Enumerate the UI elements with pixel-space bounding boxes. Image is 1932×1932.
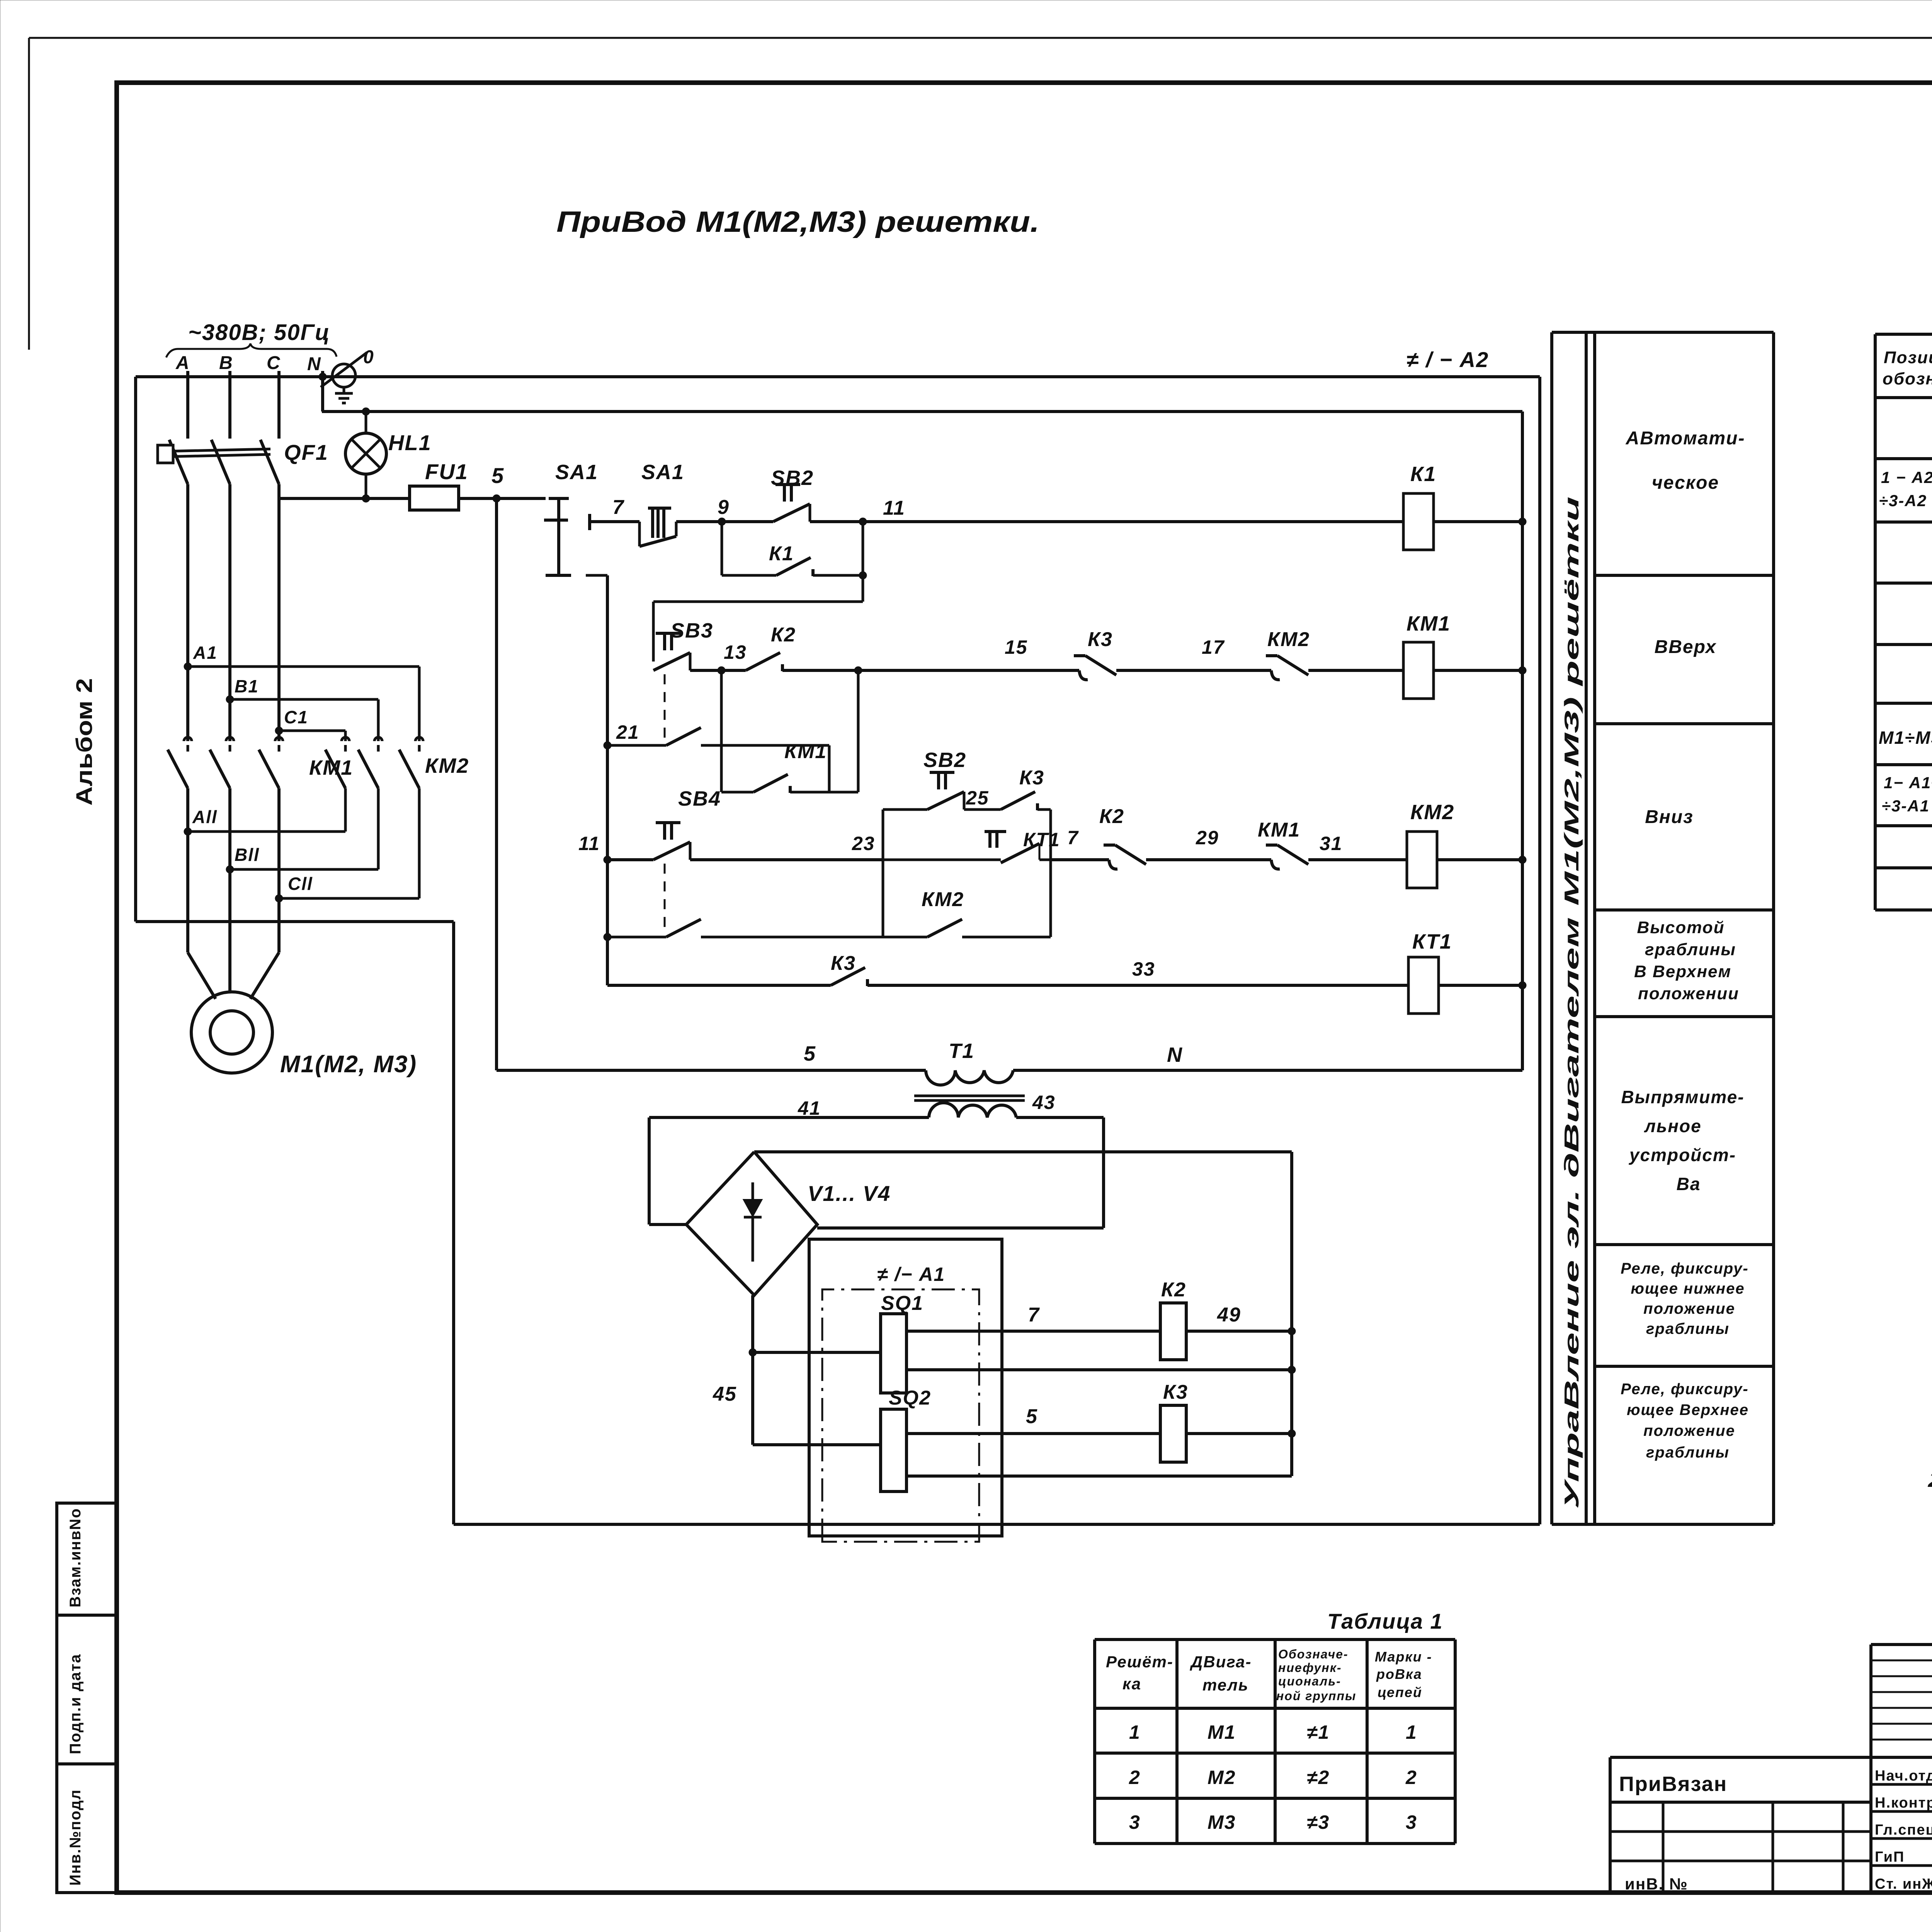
wire: circuit 49 to rail: [1186, 1304, 1296, 1335]
wire: row KM2 node 29: [1146, 827, 1271, 860]
svg-text:43: 43: [1032, 1092, 1056, 1113]
svg-text:Обозначе-: Обозначе-: [1278, 1647, 1349, 1661]
wire: to KM1 coil: [1308, 669, 1403, 672]
contactor KM2 main contacts: [325, 667, 469, 898]
svg-text:Гл.спец: Гл.спец: [1875, 1822, 1932, 1838]
note 2: [1927, 1467, 1932, 1528]
svg-text:Вниз: Вниз: [1645, 807, 1693, 827]
svg-text:ющее Верхнее: ющее Верхнее: [1627, 1401, 1749, 1418]
wire: KM1 coil to rail: [1434, 667, 1526, 674]
svg-text:КМ2: КМ2: [425, 754, 469, 777]
circuit breaker QF1: [158, 433, 328, 498]
svg-text:А: А: [175, 353, 190, 373]
svg-text:Ва: Ва: [1677, 1174, 1701, 1194]
svg-text:5: 5: [804, 1042, 816, 1065]
svg-text:7: 7: [1028, 1304, 1040, 1326]
contact K2 (NO) row 2: [746, 624, 796, 671]
svg-text:1: 1: [1406, 1721, 1417, 1743]
cell Реле нижнее: [1621, 1260, 1748, 1337]
supply label ~380V 50Hz with brace: [166, 320, 337, 357]
svg-text:41: 41: [798, 1097, 821, 1119]
table 1 grid: [1095, 1639, 1455, 1844]
contact K3 (NC) row 2: [1074, 628, 1116, 680]
contact KM2 (NO) holding branch: [922, 888, 964, 937]
box around limit switches: [809, 1239, 1002, 1536]
wire: phase stub B: [228, 371, 231, 433]
svg-text:КМ1: КМ1: [1258, 819, 1300, 841]
svg-text:SВ4: SВ4: [678, 787, 721, 810]
svg-text:Таблица 1: Таблица 1: [1327, 1609, 1443, 1633]
svg-text:К3: К3: [1088, 628, 1113, 651]
svg-text:КМ1: КМ1: [1406, 612, 1451, 635]
left margin stamp boxes: [57, 1503, 117, 1893]
wire: KT1 coil to rail: [1439, 981, 1526, 989]
wire: bus 5 - T1 - N: [497, 1039, 1522, 1070]
wire: control feed: [279, 497, 546, 500]
wire: feed for row 2 from node 11: [653, 575, 863, 662]
svg-text:15: 15: [1005, 636, 1028, 658]
svg-text:С1: С1: [284, 707, 308, 727]
svg-text:FU1: FU1: [425, 459, 468, 484]
svg-text:Высотой: Высотой: [1637, 918, 1725, 937]
svg-text:Сll: Сll: [288, 874, 313, 894]
rectifier bridge V1...V4: [686, 1152, 891, 1295]
svg-text:11: 11: [883, 497, 905, 519]
svg-text:К2: К2: [1161, 1279, 1186, 1301]
svg-text:положение: положение: [1643, 1422, 1735, 1439]
wire: row KM1 node 13: [690, 641, 747, 674]
svg-text:N: N: [307, 354, 321, 374]
svg-text:ка: ка: [1122, 1675, 1141, 1693]
drawing title: [556, 206, 1039, 238]
stamp: signature rows: [1871, 1767, 1932, 1892]
svg-text:SА1: SА1: [641, 461, 684, 484]
svg-text:М1÷М3: М1÷М3: [1879, 728, 1932, 748]
function column dividers: [1595, 575, 1774, 1366]
svg-text:Т1: Т1: [949, 1039, 975, 1063]
wire: phase stub C: [277, 371, 281, 433]
relay coil K3 (dc): [1160, 1381, 1188, 1462]
svg-text:3: 3: [1406, 1811, 1417, 1833]
svg-text:2: 2: [1129, 1767, 1141, 1788]
rotated label Инв.№подл: [67, 1789, 84, 1886]
svg-text:М2: М2: [1207, 1767, 1236, 1788]
svg-text:SВ2: SВ2: [923, 748, 966, 772]
svg-text:цепей: цепей: [1378, 1684, 1422, 1700]
rotated label Подп.и дата: [67, 1654, 84, 1755]
wire: secondary 43 to bridge: [817, 1117, 1104, 1228]
svg-text:ческое: ческое: [1652, 473, 1719, 493]
phase taps A1 B1 C1: [184, 643, 419, 735]
wire: row K1 left: [590, 496, 639, 530]
rotated column title: [1561, 497, 1583, 1509]
lamp HL1: [345, 408, 432, 502]
svg-text:33: 33: [1132, 958, 1155, 980]
svg-text:льное: льное: [1644, 1116, 1701, 1136]
svg-text:ДВига-: ДВига-: [1190, 1653, 1252, 1671]
parallel branch frame: [883, 810, 1051, 937]
contact KT1 (timer) middle: [883, 829, 1060, 863]
wire: node 31 to KM2 coil: [1308, 833, 1407, 860]
svg-text:роВка: роВка: [1376, 1666, 1422, 1682]
svg-text:КТ1: КТ1: [1412, 930, 1452, 953]
phase labels A B C N 0: [175, 347, 374, 374]
row Конечные выключатели: [1882, 774, 1932, 815]
limit switch SQ2: [881, 1387, 931, 1492]
svg-text:45: 45: [713, 1383, 737, 1405]
relay coil K2 (dc): [1160, 1279, 1186, 1360]
svg-text:граблины: граблины: [1646, 1444, 1730, 1461]
svg-text:≠3: ≠3: [1307, 1811, 1330, 1833]
pushbutton SB4: [653, 787, 721, 933]
wire: circuit 5 SQ2 to K3: [906, 1405, 1160, 1434]
svg-text:7: 7: [612, 496, 624, 519]
svg-text:Решёт-: Решёт-: [1106, 1653, 1173, 1671]
limit switch SQ1: [881, 1292, 923, 1393]
K1 holding contact branch: [722, 522, 867, 579]
node 5: [492, 463, 504, 502]
svg-text:11: 11: [578, 833, 600, 854]
enclosing box of schematic: [136, 377, 1540, 1524]
cell Выпрямительное устройство: [1621, 1087, 1744, 1194]
svg-text:ПриВод М1(М2,М3) решетки.: ПриВод М1(М2,М3) решетки.: [556, 206, 1039, 238]
svg-text:1− А1÷: 1− А1÷: [1884, 774, 1932, 792]
wire: secondary 41 to bridge: [649, 1117, 929, 1225]
wire: N stub: [319, 371, 327, 412]
wire: N bus (top): [136, 375, 1540, 378]
fuse FU1: [410, 459, 468, 510]
wire: right DC rail: [1290, 1152, 1293, 1476]
svg-text:К2: К2: [1099, 805, 1124, 828]
table 1 header: [1106, 1647, 1432, 1703]
switch SA1 section 1: [544, 461, 598, 575]
function column frame: [1552, 332, 1774, 1524]
svg-text:Нач.отд: Нач.отд: [1875, 1768, 1932, 1784]
cell Автоматическое: [1626, 428, 1745, 493]
earthing switch at N: [321, 352, 367, 403]
svg-text:Альбом 2: Альбом 2: [72, 678, 97, 806]
svg-text:31: 31: [1320, 833, 1343, 854]
svg-text:13: 13: [724, 641, 747, 663]
svg-text:V1... V4: V1... V4: [808, 1181, 891, 1206]
svg-text:~380В; 50Гц: ~380В; 50Гц: [188, 320, 330, 345]
wire: bridge bottom / 45 rail: [713, 1295, 757, 1445]
svg-text:циональ-: циональ-: [1278, 1674, 1341, 1688]
svg-text:SВ3: SВ3: [670, 619, 713, 642]
svg-text:≠ / − А2: ≠ / − А2: [1406, 347, 1489, 372]
pushbutton SB3: [653, 619, 713, 741]
svg-text:Реле, фиксиру-: Реле, фиксиру-: [1621, 1260, 1748, 1277]
table 1 title: [1327, 1609, 1443, 1633]
parts table header: [1883, 348, 1932, 388]
wire: SQ2 feed: [753, 1443, 881, 1446]
svg-text:QF1: QF1: [284, 440, 328, 464]
pushbutton SB2: [771, 466, 814, 522]
svg-text:29: 29: [1196, 827, 1219, 849]
svg-text:ниефунк-: ниефунк-: [1278, 1661, 1342, 1675]
svg-text:ющее нижнее: ющее нижнее: [1631, 1280, 1745, 1297]
svg-text:инВ. №: инВ. №: [1625, 1875, 1688, 1893]
rotated label Альбом 2: [72, 678, 97, 806]
wire: SQ2 lower to rail: [906, 1475, 1292, 1478]
svg-text:Выпрямите-: Выпрямите-: [1621, 1087, 1744, 1107]
svg-text:Взам.инвNo: Взам.инвNo: [67, 1508, 84, 1607]
wire: right rail (bus2 down to N): [1521, 412, 1524, 1070]
svg-text:КМ2: КМ2: [922, 888, 964, 911]
svg-text:Н.контр: Н.контр: [1875, 1795, 1932, 1811]
rotated label Взам.инв№: [67, 1508, 84, 1607]
svg-text:ГиП: ГиП: [1875, 1849, 1905, 1865]
svg-text:0: 0: [363, 347, 374, 367]
svg-text:КМ2: КМ2: [1267, 628, 1310, 651]
svg-text:К3: К3: [1019, 767, 1044, 789]
svg-text:ной группы: ной группы: [1276, 1689, 1356, 1703]
svg-text:2. Схема Выполнена согласно: 2. Схема Выполнена согласно заВодского: [1927, 1467, 1932, 1492]
svg-text:КМ2: КМ2: [1410, 801, 1454, 824]
svg-text:3: 3: [1129, 1811, 1141, 1833]
svg-text:УпраВление эл. дВигателем М: УпраВление эл. дВигателем М1(М2,М3) решё…: [1561, 497, 1583, 1509]
svg-text:5: 5: [492, 463, 504, 488]
dash-dot box 1-A1: [822, 1264, 979, 1542]
svg-text:≠1: ≠1: [1307, 1721, 1330, 1743]
wire: K3 to rail: [1186, 1430, 1296, 1437]
svg-text:1 − А2÷: 1 − А2÷: [1881, 468, 1932, 486]
svg-text:ПриВязан: ПриВязан: [1619, 1772, 1727, 1796]
wire: SA1 lower feed L: [586, 575, 607, 985]
svg-text:М1(М2, М3): М1(М2, М3): [280, 1051, 417, 1078]
wire: phase stub A: [186, 371, 189, 433]
wire: K1 coil to rail: [1434, 518, 1526, 526]
svg-text:граблины: граблины: [1645, 940, 1736, 959]
wire: row KM1 middle: [782, 636, 1079, 670]
contact KM1 (NC) row 3: [1258, 819, 1308, 869]
svg-text:тель: тель: [1202, 1676, 1249, 1694]
svg-text:АВтомати-: АВтомати-: [1626, 428, 1745, 449]
SB3 lower linked contact: [604, 721, 829, 792]
relay coil KT1: [1408, 930, 1452, 1014]
svg-text:23: 23: [852, 833, 875, 854]
svg-text:КМ1: КМ1: [784, 740, 827, 763]
motor M1(M2,M3): [188, 952, 417, 1078]
svg-text:Вll: Вll: [235, 845, 260, 865]
svg-text:обозн.: обозн.: [1883, 369, 1932, 388]
wire: bridge top to right rail: [754, 1150, 1292, 1153]
wire: circuit 7 SQ1 to K2: [906, 1304, 1160, 1331]
wire: second bus (0/PE): [322, 410, 1522, 413]
reversing links AII BII CII: [184, 807, 419, 902]
stamp: main frame: [1871, 1645, 1932, 1893]
svg-text:устройст-: устройст-: [1629, 1145, 1736, 1165]
table 1 rows: [1129, 1721, 1417, 1833]
svg-text:SQ2: SQ2: [889, 1387, 931, 1409]
wire: SQ1 feed: [753, 1351, 881, 1354]
svg-text:Подп.и дата: Подп.и дата: [67, 1654, 84, 1755]
svg-text:÷3-А2: ÷3-А2: [1879, 492, 1927, 510]
wire: row K1 node 11 to coil: [810, 497, 1403, 526]
svg-text:25: 25: [966, 787, 989, 809]
svg-text:С: С: [267, 353, 281, 373]
svg-text:≠2: ≠2: [1307, 1767, 1330, 1788]
wire: row K1 node 9: [676, 496, 773, 526]
contact K2 (NC) row 3: [1099, 805, 1146, 869]
svg-text:А1: А1: [193, 643, 218, 663]
pushbutton SB2 section 2: [883, 748, 966, 810]
svg-text:М1: М1: [1207, 1721, 1236, 1743]
svg-text:Позиц.: Позиц.: [1884, 348, 1932, 367]
relay coil K1: [1403, 463, 1436, 550]
stamp: attach box Привязан: [1610, 1757, 1871, 1893]
contact K3 (NO) row 4: [831, 952, 867, 986]
svg-text:ВВерх: ВВерх: [1655, 637, 1717, 657]
cell Реле верхнее: [1621, 1381, 1749, 1461]
svg-text:К1: К1: [1410, 463, 1436, 486]
wire: row KM1 node 17: [1116, 636, 1271, 670]
svg-text:SА1: SА1: [555, 461, 598, 484]
wire: row KM2 left: [578, 833, 653, 864]
svg-text:Инв.№подл: Инв.№подл: [67, 1789, 84, 1886]
labels 41 43: [798, 1092, 1056, 1119]
svg-text:5: 5: [1026, 1405, 1038, 1428]
wire: SQ1 lower to rail: [906, 1366, 1296, 1374]
svg-text:В Верхнем: В Верхнем: [1634, 962, 1731, 981]
svg-text:≠ /− А1: ≠ /− А1: [877, 1264, 945, 1285]
row Электрошкаф: [1879, 466, 1932, 515]
svg-text:В: В: [219, 353, 233, 373]
relay coil KM2: [1407, 801, 1454, 888]
svg-text:7: 7: [1067, 827, 1079, 849]
svg-text:К3: К3: [831, 952, 856, 975]
KM1 holding contact branch: [721, 667, 862, 793]
svg-text:HL1: HL1: [388, 430, 432, 455]
label ≠1-A2: [1406, 347, 1489, 372]
wire: row KM2 node 7: [1051, 827, 1109, 860]
svg-text:Аll: Аll: [192, 807, 218, 827]
svg-text:SQ1: SQ1: [881, 1292, 923, 1315]
svg-text:К2: К2: [771, 624, 796, 646]
svg-text:Марки -: Марки -: [1375, 1649, 1432, 1665]
svg-text:9: 9: [718, 496, 730, 519]
wire: row KT1 left: [607, 984, 831, 987]
svg-text:Ст. инЖ: Ст. инЖ: [1875, 1876, 1932, 1892]
svg-text:49: 49: [1217, 1304, 1241, 1326]
svg-text:1: 1: [1129, 1721, 1141, 1743]
svg-text:17: 17: [1202, 636, 1225, 658]
parts list table frame: [1875, 334, 1932, 910]
cell Высотой граблины: [1634, 918, 1739, 1003]
svg-text:М3: М3: [1207, 1811, 1236, 1833]
svg-text:N: N: [1167, 1043, 1183, 1066]
svg-text:К3: К3: [1163, 1381, 1188, 1403]
wire: circuit 5 down to T1: [495, 498, 498, 1070]
svg-text:В1: В1: [235, 676, 259, 696]
svg-text:положении: положении: [1638, 984, 1739, 1003]
svg-text:2: 2: [1405, 1767, 1417, 1788]
cell Вниз: [1645, 807, 1693, 827]
contact KM2 (NC) row 2: [1266, 628, 1310, 680]
svg-text:положение: положение: [1643, 1300, 1735, 1317]
transformer T1: [914, 1070, 1025, 1117]
svg-text:Реле, фиксиру-: Реле, фиксиру-: [1621, 1381, 1748, 1398]
contact K3 (NO) branch: [964, 767, 1051, 810]
svg-text:К1: К1: [769, 543, 794, 565]
wire: row KM2 node 23: [690, 833, 883, 860]
switch SA1 section 2: [639, 461, 684, 546]
row Электродвигатель: [1879, 724, 1932, 750]
svg-text:граблины: граблины: [1646, 1320, 1730, 1337]
contactor KM1 main contacts: [168, 498, 353, 952]
svg-text:÷3-А1: ÷3-А1: [1882, 797, 1930, 815]
wire: node 33 to KT1 coil: [867, 958, 1408, 985]
wire: KM2 coil to rail: [1437, 856, 1526, 864]
svg-text:21: 21: [616, 721, 639, 743]
cell Вверх: [1655, 637, 1717, 657]
wire: bottom branch / SB4 bypass: [604, 919, 1051, 941]
relay coil KM1: [1403, 612, 1451, 699]
